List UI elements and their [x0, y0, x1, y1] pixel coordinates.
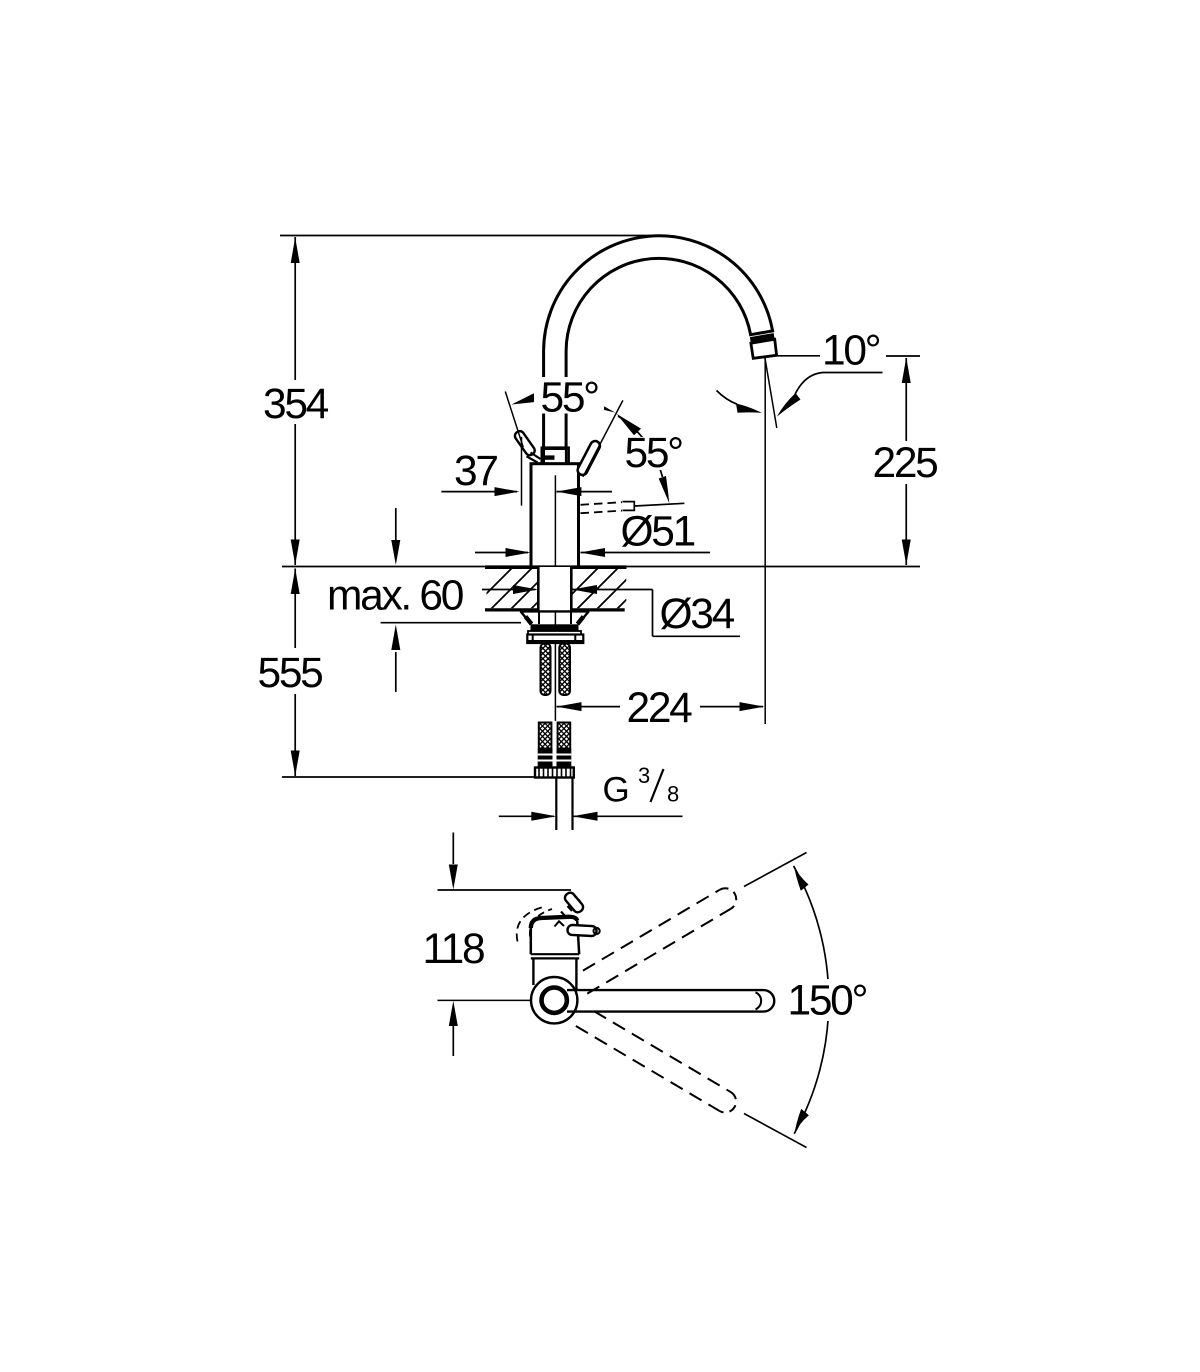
svg-text:150°: 150°: [788, 978, 867, 1025]
svg-text:10°: 10°: [822, 328, 880, 375]
svg-text:55°: 55°: [625, 430, 683, 477]
svg-text:555: 555: [258, 650, 323, 697]
svg-text:118: 118: [423, 926, 485, 973]
svg-text:G: G: [603, 771, 630, 810]
svg-text:55°: 55°: [541, 375, 599, 422]
svg-text:354: 354: [263, 381, 329, 428]
svg-text:225: 225: [873, 440, 938, 487]
svg-text:Ø51: Ø51: [621, 509, 695, 556]
svg-text:224: 224: [627, 685, 693, 732]
svg-text:3: 3: [638, 763, 650, 788]
svg-text:37: 37: [454, 448, 497, 495]
svg-text:Ø34: Ø34: [660, 591, 735, 638]
svg-text:8: 8: [667, 782, 679, 807]
svg-text:max. 60: max. 60: [327, 573, 463, 620]
